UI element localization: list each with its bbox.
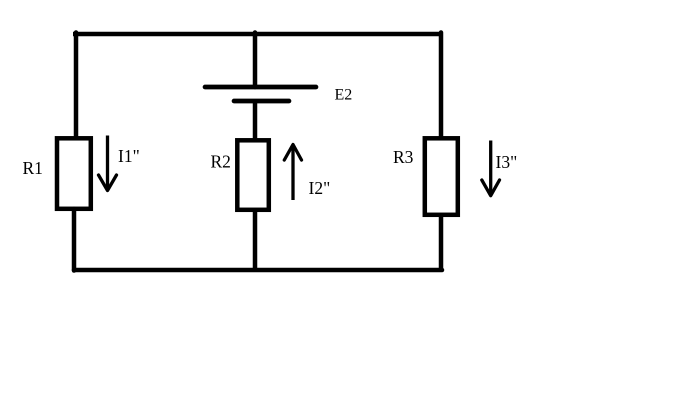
- resistor R3: [425, 138, 458, 215]
- wire R1 to bottom: [72, 209, 77, 271]
- svg-text:I2": I2": [309, 178, 331, 198]
- arrow I1 (current down): [99, 136, 117, 191]
- resistor R1: [57, 138, 91, 209]
- wire R2 to bottom: [253, 210, 258, 271]
- svg-text:I1": I1": [118, 146, 140, 166]
- svg-text:R2: R2: [211, 152, 231, 172]
- svg-text:R3: R3: [393, 147, 414, 167]
- wire top horizontal: [73, 32, 443, 37]
- battery E2 negative plate: [234, 99, 289, 104]
- svg-text:I3": I3": [496, 152, 518, 172]
- wire top node to battery: [253, 33, 258, 88]
- wire R3 to bottom: [439, 215, 444, 271]
- arrow I3 (current down): [482, 141, 500, 196]
- wire battery to R2: [253, 101, 258, 141]
- wire right vertical (node to R3): [439, 33, 444, 139]
- svg-text:R1: R1: [23, 158, 43, 178]
- wire bottom horizontal: [74, 268, 442, 273]
- wire left vertical (node to R1): [74, 33, 79, 137]
- resistor R2: [237, 140, 268, 210]
- battery E2 positive plate: [205, 85, 316, 90]
- arrow I2 (current up): [284, 145, 301, 201]
- svg-text:E2: E2: [335, 87, 353, 104]
